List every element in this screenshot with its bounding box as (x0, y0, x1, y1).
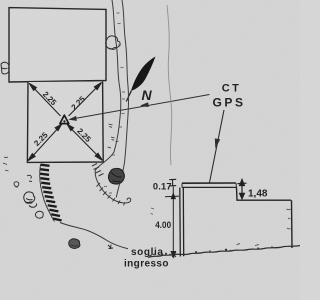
stream bank right line (116, 0, 128, 198)
north arrow tail (126, 91, 131, 102)
stream tip comb ticks (97, 183, 126, 206)
path tail line to soglia (60, 223, 128, 249)
stairs left edge line (40, 165, 55, 222)
rock left of plan (1, 62, 9, 74)
station marker triangle with dot (60, 115, 69, 123)
leader arrow from GPS label to section slab (210, 110, 225, 183)
scarp hatch ticks below square (92, 164, 104, 177)
courtyard square outline (27, 82, 103, 163)
paper grain overlay (0, 0, 1, 1)
small scribbles above rocks (27, 175, 32, 181)
scribble marks beside stream (108, 124, 115, 148)
small scratches left edge (3, 157, 9, 171)
stream bank left line (95, 0, 131, 203)
rock C (36, 211, 44, 218)
building outline (plan rectangle) (9, 8, 106, 82)
diagonal dimension arrow BR (67, 124, 102, 160)
section left wall (double line) (180, 188, 184, 257)
rock cluster B (24, 192, 37, 207)
diagonal dimension arrow TR (69, 83, 102, 117)
vegetation ticks in stream bed (104, 13, 125, 193)
dimension 0.17 tick symbol (169, 179, 176, 186)
stairs hatch band (40, 165, 62, 221)
north arrow blade (131, 57, 156, 92)
leader arrow from GPS label to station (70, 95, 210, 121)
rock inside stream bed (109, 168, 125, 184)
marks beside right wall (287, 209, 291, 229)
diagonal dimension arrow BL (28, 124, 62, 160)
section right wall (291, 200, 294, 248)
small tick above ground right (237, 244, 260, 246)
threshold star marker (172, 252, 177, 258)
vertical dimension line 4.00 (165, 187, 179, 258)
section step down right of slab (237, 187, 292, 200)
section slab (double line) (182, 183, 237, 187)
faint crease line (167, 5, 172, 165)
small arrow mark on path tail (108, 245, 113, 250)
rocks on stream top bank (106, 36, 120, 50)
ground wavy line (148, 246, 300, 258)
faint marks left of dimension (151, 208, 155, 214)
diagonal dimension arrow TL (29, 83, 60, 116)
vertical dimension line 1,48 (238, 180, 247, 199)
ground pebbles (149, 246, 273, 257)
rock cluster D (69, 239, 80, 249)
dotted leader from soglia to wall base (161, 253, 171, 256)
rock cluster A (14, 182, 19, 188)
